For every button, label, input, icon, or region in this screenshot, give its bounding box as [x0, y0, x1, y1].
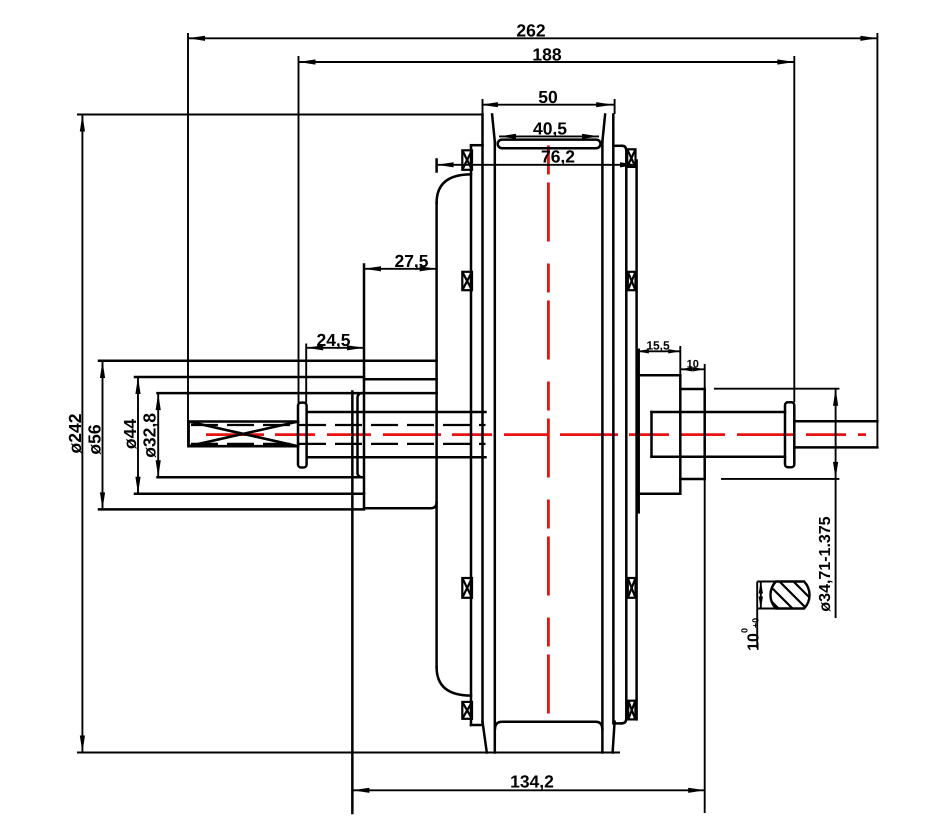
svg-text:ø44: ø44 — [120, 419, 140, 449]
svg-text:15,5: 15,5 — [646, 339, 670, 353]
svg-text:40,5: 40,5 — [533, 119, 567, 139]
svg-text:0: 0 — [740, 628, 750, 633]
svg-text:10: 10 — [687, 359, 699, 371]
svg-text:ø242: ø242 — [65, 413, 85, 453]
svg-text:ø56: ø56 — [85, 424, 105, 454]
svg-text:+0: +0 — [750, 618, 760, 628]
svg-text:ø34,71-1.375: ø34,71-1.375 — [817, 516, 834, 611]
svg-text:10: 10 — [746, 633, 763, 651]
svg-text:27,5: 27,5 — [394, 251, 428, 271]
svg-text:50: 50 — [538, 87, 558, 107]
svg-text:76,2: 76,2 — [541, 147, 575, 167]
svg-text:262: 262 — [516, 21, 545, 41]
svg-text:188: 188 — [532, 45, 561, 65]
svg-text:134,2: 134,2 — [510, 772, 554, 792]
svg-text:ø32,8: ø32,8 — [140, 413, 160, 458]
svg-text:24,5: 24,5 — [316, 330, 350, 350]
